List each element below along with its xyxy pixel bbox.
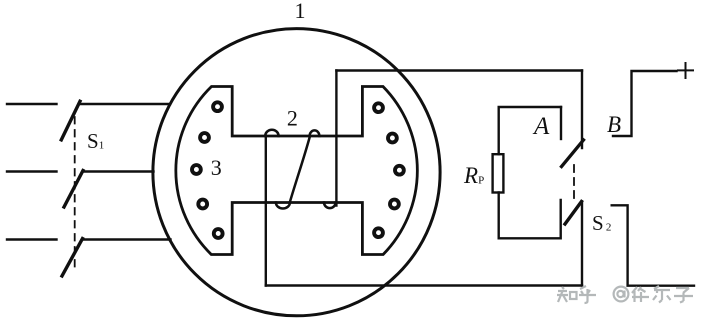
- svg-text:2: 2: [287, 105, 298, 130]
- switch S1 pole-1 right wire: [80, 103, 170, 105]
- switch A fixed contact: [560, 107, 562, 139]
- svg-text:S 2: S 2: [592, 211, 611, 235]
- wire branch top to resistor: [499, 107, 561, 154]
- motor housing circle 1: [153, 29, 440, 316]
- plus sign: [678, 63, 693, 78]
- switch S1 pole-2 left wire: [7, 170, 57, 172]
- stator slot rings left (3): [192, 102, 404, 238]
- svg-text:A: A: [532, 113, 550, 140]
- switch S1 pole-2 blade: [64, 171, 83, 208]
- stator slot rings right (3): [374, 103, 383, 112]
- top wire to switch A: [336, 69, 582, 71]
- terminal + wire of B: [613, 71, 677, 136]
- wire main vertical upper: [581, 71, 583, 149]
- coil right lead wire: [335, 71, 337, 206]
- switch S1 pole-2 right wire: [83, 170, 154, 172]
- switch A blade: [562, 140, 584, 167]
- bottom wire: [266, 284, 582, 286]
- switch S1 pole-3 right wire: [83, 238, 171, 240]
- coil 2 top turns: [265, 130, 278, 136]
- watermark zhihu: [557, 286, 693, 303]
- switch S2 blade: [565, 202, 582, 225]
- switch S1 linkage dashed: [74, 117, 76, 267]
- switch S1 pole-1 left wire: [7, 103, 57, 105]
- switch S1 pole-3 blade: [62, 239, 83, 277]
- switch S1 pole-1 blade: [61, 101, 80, 140]
- svg-text:B: B: [607, 112, 621, 137]
- coil 2 diagonal winding: [290, 136, 310, 202]
- svg-text:3: 3: [211, 155, 222, 180]
- svg-text:RP: RP: [463, 163, 484, 188]
- svg-text:1: 1: [295, 0, 306, 23]
- switch S2 right contact wire: [612, 205, 694, 285]
- stator core outline: [176, 87, 418, 255]
- resistor RP body: [493, 154, 504, 192]
- svg-text:S1: S1: [87, 129, 104, 153]
- wire resistor bottom: [499, 193, 561, 239]
- coil left lead wire: [265, 136, 267, 286]
- coil 2 bottom turns: [276, 203, 290, 209]
- linkage A-S2 dashed: [573, 165, 575, 204]
- switch S1 pole-3 left wire: [7, 238, 57, 240]
- wire main vertical lower: [581, 202, 583, 286]
